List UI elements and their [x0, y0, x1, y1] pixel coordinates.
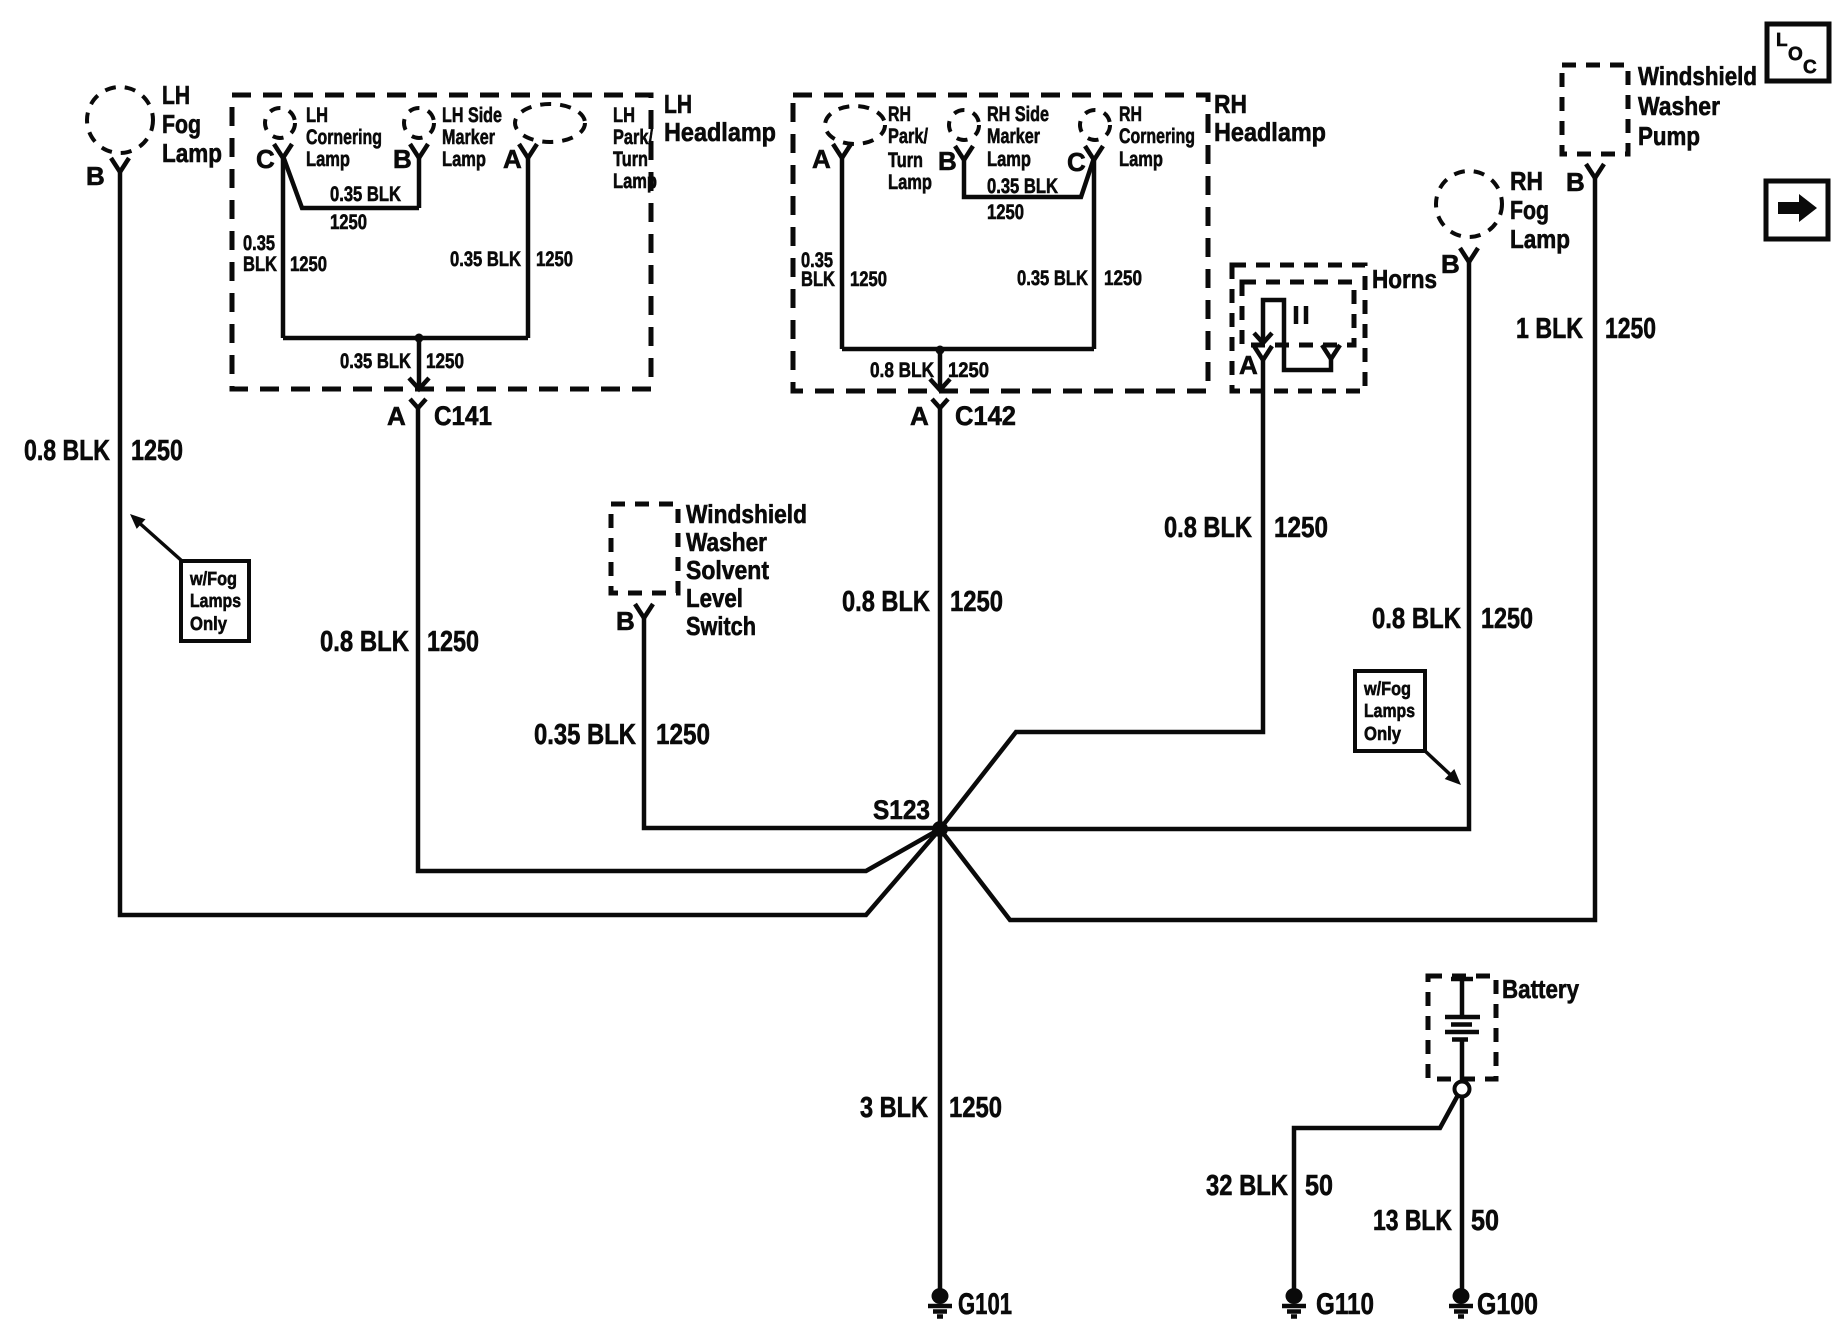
- svg-text:Lamp: Lamp: [1119, 148, 1163, 171]
- svg-text:Switch: Switch: [686, 611, 756, 641]
- svg-text:1250: 1250: [1274, 512, 1328, 544]
- svg-text:32 BLK: 32 BLK: [1206, 1170, 1288, 1202]
- svg-text:Lamps: Lamps: [190, 591, 241, 612]
- svg-text:1250: 1250: [290, 253, 327, 276]
- svg-text:Windshield: Windshield: [686, 499, 807, 529]
- svg-text:RH: RH: [888, 103, 911, 126]
- svg-text:3 BLK: 3 BLK: [860, 1092, 928, 1124]
- svg-text:w/Fog: w/Fog: [189, 569, 237, 590]
- svg-text:Marker: Marker: [442, 126, 495, 149]
- svg-text:LH: LH: [162, 80, 190, 110]
- svg-text:RH: RH: [1119, 103, 1142, 126]
- svg-text:BLK: BLK: [243, 253, 277, 276]
- svg-text:Cornering: Cornering: [1119, 125, 1195, 148]
- svg-text:Headlamp: Headlamp: [664, 117, 776, 147]
- svg-text:Level: Level: [686, 583, 743, 613]
- svg-text:0.8 BLK: 0.8 BLK: [24, 435, 110, 467]
- svg-text:Washer: Washer: [686, 527, 767, 557]
- svg-text:RH Side: RH Side: [987, 103, 1049, 126]
- svg-text:1 BLK: 1 BLK: [1516, 313, 1583, 345]
- svg-text:B: B: [1441, 249, 1460, 279]
- svg-text:Turn: Turn: [888, 149, 923, 172]
- svg-text:C: C: [256, 144, 275, 174]
- svg-text:Washer: Washer: [1638, 91, 1720, 121]
- svg-text:LH: LH: [664, 89, 692, 119]
- svg-text:Lamp: Lamp: [888, 171, 932, 194]
- svg-text:Horns: Horns: [1372, 264, 1437, 294]
- svg-text:0.8 BLK: 0.8 BLK: [1372, 603, 1461, 635]
- svg-text:B: B: [393, 144, 412, 174]
- svg-text:Lamps: Lamps: [1364, 701, 1415, 722]
- svg-text:Only: Only: [190, 614, 227, 635]
- svg-text:0.35 BLK: 0.35 BLK: [534, 719, 636, 751]
- svg-text:B: B: [86, 161, 105, 191]
- svg-text:Park/: Park/: [888, 125, 928, 148]
- svg-text:C: C: [1067, 147, 1086, 177]
- svg-text:Lamp: Lamp: [613, 170, 657, 193]
- svg-text:1250: 1250: [426, 350, 464, 373]
- svg-text:Lamp: Lamp: [1510, 224, 1570, 254]
- svg-text:Cornering: Cornering: [306, 126, 382, 149]
- svg-text:Windshield: Windshield: [1638, 61, 1757, 91]
- svg-text:B: B: [938, 146, 957, 176]
- svg-text:S123: S123: [873, 795, 930, 825]
- svg-text:G101: G101: [958, 1288, 1012, 1321]
- svg-text:0.8 BLK: 0.8 BLK: [870, 359, 934, 382]
- svg-text:G110: G110: [1316, 1288, 1374, 1321]
- svg-text:Park/: Park/: [613, 126, 653, 149]
- svg-text:A: A: [503, 144, 522, 174]
- svg-text:0.35: 0.35: [243, 232, 275, 255]
- svg-text:A: A: [812, 144, 831, 174]
- svg-text:1250: 1250: [1605, 313, 1656, 345]
- svg-text:LH Side: LH Side: [442, 104, 502, 127]
- svg-text:B: B: [1566, 167, 1585, 197]
- svg-text:LH: LH: [613, 104, 635, 127]
- svg-text:50: 50: [1305, 1170, 1333, 1202]
- svg-text:C: C: [1803, 57, 1817, 78]
- svg-text:Only: Only: [1364, 724, 1401, 745]
- svg-text:C141: C141: [434, 401, 492, 431]
- svg-text:1250: 1250: [850, 268, 887, 291]
- svg-text:Turn: Turn: [613, 148, 648, 171]
- svg-text:Marker: Marker: [987, 125, 1040, 148]
- svg-text:Lamp: Lamp: [442, 148, 486, 171]
- svg-text:0.35 BLK: 0.35 BLK: [340, 350, 411, 373]
- svg-text:0.35 BLK: 0.35 BLK: [1017, 267, 1088, 290]
- svg-text:G100: G100: [1477, 1288, 1538, 1321]
- svg-text:O: O: [1788, 44, 1803, 65]
- svg-text:Lamp: Lamp: [162, 138, 222, 168]
- svg-text:Pump: Pump: [1638, 121, 1700, 151]
- svg-text:Fog: Fog: [1510, 195, 1549, 225]
- svg-text:Solvent: Solvent: [686, 555, 769, 585]
- svg-text:1250: 1250: [330, 211, 367, 234]
- svg-text:1250: 1250: [948, 359, 989, 382]
- svg-text:Lamp: Lamp: [306, 148, 350, 171]
- svg-text:1250: 1250: [950, 586, 1003, 618]
- svg-text:0.35 BLK: 0.35 BLK: [987, 175, 1058, 198]
- svg-text:Lamp: Lamp: [987, 148, 1031, 171]
- svg-text:Battery: Battery: [1502, 974, 1579, 1004]
- svg-text:w/Fog: w/Fog: [1363, 679, 1411, 700]
- svg-text:RH: RH: [1214, 89, 1247, 119]
- svg-text:1250: 1250: [427, 626, 479, 658]
- svg-text:1250: 1250: [949, 1092, 1002, 1124]
- svg-text:13 BLK: 13 BLK: [1373, 1205, 1452, 1237]
- svg-text:Fog: Fog: [162, 109, 201, 139]
- svg-text:BLK: BLK: [801, 268, 835, 291]
- svg-text:1250: 1250: [1104, 267, 1142, 290]
- svg-text:LH: LH: [306, 104, 328, 127]
- svg-text:A: A: [910, 401, 929, 431]
- svg-text:C142: C142: [955, 401, 1016, 431]
- svg-text:A: A: [387, 401, 406, 431]
- svg-text:50: 50: [1471, 1205, 1499, 1237]
- svg-text:RH: RH: [1510, 166, 1543, 196]
- svg-text:1250: 1250: [536, 248, 573, 271]
- svg-text:Headlamp: Headlamp: [1214, 117, 1326, 147]
- svg-text:0.8 BLK: 0.8 BLK: [1164, 512, 1252, 544]
- svg-text:0.35 BLK: 0.35 BLK: [330, 183, 401, 206]
- svg-text:B: B: [616, 606, 635, 636]
- svg-text:A: A: [1239, 350, 1258, 380]
- svg-text:0.8 BLK: 0.8 BLK: [320, 626, 409, 658]
- svg-text:1250: 1250: [656, 719, 710, 751]
- svg-text:L: L: [1776, 30, 1788, 51]
- svg-text:1250: 1250: [987, 201, 1024, 224]
- svg-text:0.35 BLK: 0.35 BLK: [450, 248, 521, 271]
- svg-text:1250: 1250: [1481, 603, 1533, 635]
- svg-text:0.8 BLK: 0.8 BLK: [842, 586, 930, 618]
- svg-text:1250: 1250: [131, 435, 183, 467]
